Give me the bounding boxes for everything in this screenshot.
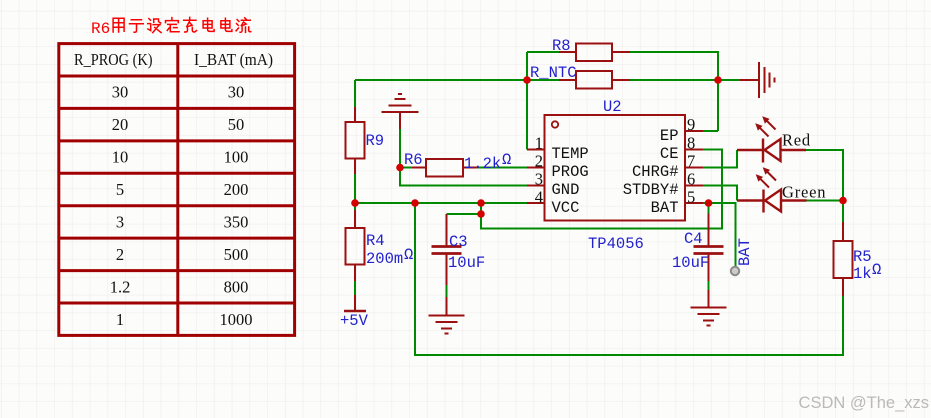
- pin 5 BAT: [685, 202, 703, 204]
- svg-text:100: 100: [224, 148, 249, 167]
- pin 4 VCC: [527, 202, 545, 204]
- svg-text:R_NTC: R_NTC: [530, 64, 577, 82]
- wire to R8 left: [527, 51, 559, 53]
- svg-text:R6: R6: [404, 151, 423, 169]
- svg-text:BAT: BAT: [736, 238, 754, 266]
- svg-text:5: 5: [687, 188, 695, 207]
- net flag BAT terminal: [731, 267, 739, 275]
- svg-text:1: 1: [535, 134, 543, 153]
- pin 8 CE: [685, 149, 703, 151]
- wire R6 right to PROG pin2: [477, 167, 527, 169]
- wire R9 bottom: [354, 174, 356, 203]
- svg-text:TEMP: TEMP: [552, 145, 589, 163]
- wire R_NTC left: [527, 79, 559, 81]
- junction R6 left / GND: [396, 164, 404, 172]
- capacitor C3: [432, 214, 462, 285]
- resistor R9: [346, 107, 365, 174]
- pin 9 EP: [685, 130, 703, 132]
- power +5V: [344, 295, 366, 311]
- svg-text:2: 2: [116, 245, 124, 264]
- svg-text:CE: CE: [660, 145, 679, 163]
- svg-text:30: 30: [112, 83, 129, 102]
- junction bottom-rail branch on VCC rail: [411, 199, 419, 207]
- LED green D2: [737, 190, 807, 213]
- svg-text:500: 500: [224, 245, 249, 264]
- pin 6 STDBY#: [685, 185, 703, 187]
- svg-text:3: 3: [535, 170, 543, 189]
- svg-text:30: 30: [228, 83, 245, 102]
- svg-text:200m: 200m: [366, 250, 403, 268]
- svg-text:BAT: BAT: [651, 199, 679, 217]
- svg-text:CSDN @The_xzs: CSDN @The_xzs: [799, 394, 929, 412]
- svg-text:9: 9: [687, 115, 695, 134]
- junction R9/R4 on VCC rail: [351, 199, 359, 207]
- wire R_NTC right to ground column: [630, 79, 740, 81]
- svg-text:+5V: +5V: [340, 312, 369, 330]
- wire ground right lead: [718, 79, 740, 81]
- junction C3/CE branch on VCC rail: [477, 199, 485, 207]
- svg-text:R_PROG (K): R_PROG (K): [74, 50, 153, 69]
- svg-text:R5: R5: [853, 248, 872, 266]
- ground right of R_NTC (rotated 90): [740, 62, 775, 98]
- pin 7 CHRG#: [685, 167, 703, 169]
- junction R8/R_NTC/EP at ground: [714, 76, 722, 84]
- svg-text:1k: 1k: [853, 265, 872, 283]
- svg-text:350: 350: [224, 213, 249, 232]
- wire VCC rail: [355, 202, 527, 204]
- resistor R6: [412, 159, 477, 177]
- svg-text:7: 7: [687, 152, 695, 171]
- capacitor C4: [694, 214, 724, 282]
- svg-text:2: 2: [535, 152, 543, 171]
- wire R8 right to ground column: [630, 52, 718, 131]
- wire CE loop to pin8: [481, 150, 722, 229]
- svg-text:VCC: VCC: [552, 199, 580, 217]
- svg-text:PROG: PROG: [552, 163, 589, 181]
- wire R4 top: [354, 203, 356, 210]
- resistor R5: [834, 222, 853, 296]
- LED red D1: [737, 139, 806, 163]
- wire R9 top: [354, 80, 356, 107]
- wire EP pin9: [703, 130, 718, 132]
- wire green LED right: [807, 200, 844, 202]
- svg-text:C3: C3: [449, 233, 468, 251]
- wire R5 top: [842, 201, 844, 223]
- wire NTC node vertical to pin1: [526, 52, 528, 150]
- title: R6 is used to set charge current: [91, 17, 251, 38]
- svg-text:6: 6: [687, 170, 695, 189]
- svg-text:I_BAT (mA): I_BAT (mA): [194, 50, 273, 69]
- wire R4 mid green: [354, 281, 356, 295]
- resistor R_NTC: [559, 71, 630, 89]
- svg-text:R8: R8: [552, 37, 571, 55]
- junction green LED / R5: [839, 197, 847, 205]
- wire CHRG pin7 to red LED: [703, 150, 737, 168]
- wire C3 branch: [447, 203, 482, 214]
- ground above R6 (rotated 180): [382, 94, 419, 129]
- svg-text:1.2k: 1.2k: [464, 155, 501, 173]
- svg-text:Ω: Ω: [872, 261, 881, 279]
- wire C3 mid green: [446, 285, 448, 297]
- wire BAT pin5: [703, 203, 736, 267]
- svg-text:5: 5: [116, 180, 124, 199]
- svg-text:50: 50: [228, 115, 245, 134]
- table R_PROG vs I_BAT: [59, 44, 295, 336]
- ground below C4: [691, 290, 727, 326]
- svg-text:1: 1: [116, 310, 124, 329]
- wire R6 left stub: [400, 167, 412, 169]
- svg-text:C4: C4: [684, 230, 703, 248]
- svg-text:8: 8: [687, 134, 695, 153]
- pin 3 GND: [527, 185, 545, 187]
- wire STDBY pin6 to green LED: [703, 186, 737, 201]
- svg-text:U2: U2: [603, 98, 622, 116]
- junction NTC node / TEMP: [523, 76, 531, 84]
- svg-text:10uF: 10uF: [672, 254, 709, 272]
- wire GND pin3: [400, 168, 527, 186]
- svg-text:Red: Red: [782, 131, 811, 150]
- svg-text:10uF: 10uF: [448, 254, 485, 272]
- svg-text:GND: GND: [552, 181, 580, 199]
- junction BAT pin5 / C4: [705, 199, 713, 207]
- svg-text:EP: EP: [660, 127, 679, 145]
- pin 1 TEMP: [527, 149, 545, 151]
- wire ground to R6 node: [399, 129, 401, 168]
- ground below C3: [429, 297, 465, 334]
- svg-text:4: 4: [535, 188, 543, 207]
- pin 2 PROG: [527, 167, 545, 169]
- svg-text:1000: 1000: [220, 310, 253, 329]
- wire red LED to R5 column: [806, 150, 843, 201]
- svg-text:3: 3: [116, 213, 124, 232]
- wire C4 mid green: [708, 281, 710, 290]
- junction C3 tee: [477, 210, 485, 218]
- svg-text:R6: R6: [91, 20, 110, 38]
- svg-text:200: 200: [224, 180, 249, 199]
- wire C4 top: [708, 203, 710, 214]
- resistor R8: [559, 44, 630, 62]
- svg-text:CHRG#: CHRG#: [632, 163, 679, 181]
- svg-text:1.2: 1.2: [110, 278, 131, 297]
- svg-text:TP4056: TP4056: [588, 235, 644, 253]
- svg-text:STDBY#: STDBY#: [623, 181, 679, 199]
- resistor R4: [346, 210, 365, 281]
- wire bottom rail to R5: [415, 203, 843, 355]
- svg-text:20: 20: [112, 115, 129, 134]
- wire NTC node horizontal: [355, 79, 527, 81]
- svg-text:10: 10: [112, 148, 129, 167]
- svg-text:R4: R4: [366, 232, 385, 250]
- svg-text:Ω: Ω: [502, 151, 511, 169]
- svg-text:Ω: Ω: [404, 246, 413, 264]
- svg-text:Green: Green: [782, 183, 826, 202]
- svg-text:800: 800: [224, 278, 249, 297]
- op-amp U2 TP4056: [545, 115, 686, 221]
- svg-text:R9: R9: [366, 132, 385, 150]
